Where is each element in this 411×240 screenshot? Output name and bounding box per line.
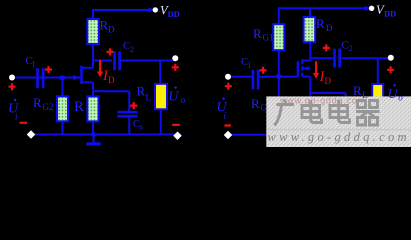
svg-text:1: 1: [32, 60, 36, 69]
svg-text:L: L: [146, 93, 152, 103]
svg-text:DD: DD: [384, 9, 396, 19]
svg-text:2: 2: [349, 44, 353, 53]
svg-text:R: R: [316, 16, 325, 31]
svg-text:G: G: [261, 103, 268, 113]
svg-text:D: D: [108, 25, 115, 35]
svg-text:o: o: [181, 95, 186, 105]
svg-text:L: L: [362, 90, 368, 100]
svg-text:G1: G1: [263, 33, 274, 43]
svg-text:U: U: [168, 90, 179, 105]
svg-text:R: R: [251, 96, 260, 111]
svg-text:R: R: [74, 99, 84, 115]
svg-text:DD: DD: [168, 9, 180, 19]
svg-text:R: R: [137, 84, 146, 99]
svg-text:D: D: [326, 23, 333, 33]
svg-text:U: U: [388, 87, 399, 102]
svg-text:C: C: [133, 119, 140, 130]
svg-text:s: s: [140, 122, 143, 131]
svg-text:2: 2: [130, 45, 134, 54]
svg-text:D: D: [108, 75, 115, 85]
svg-text:R: R: [253, 26, 262, 41]
svg-text:G2: G2: [43, 102, 54, 112]
svg-text:1: 1: [247, 61, 251, 70]
svg-text:C: C: [342, 39, 349, 51]
svg-text:R: R: [33, 95, 42, 110]
svg-text:o: o: [398, 93, 403, 103]
svg-text:R: R: [353, 83, 362, 98]
svg-text:www.go-gddq.com: www.go-gddq.com: [268, 130, 410, 144]
svg-text:D: D: [325, 76, 332, 86]
